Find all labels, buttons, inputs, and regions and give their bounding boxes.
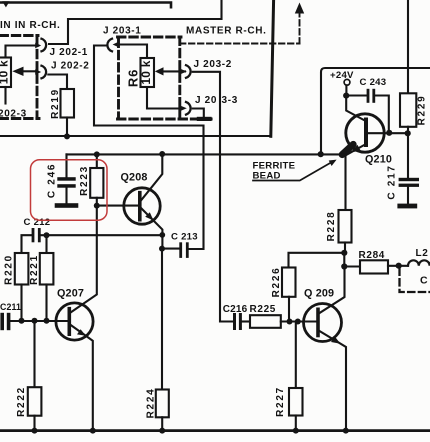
svg-text:J 202-2: J 202-2 <box>51 61 89 72</box>
wire +24V rail <box>321 68 430 152</box>
resistor R222 <box>33 321 35 388</box>
resistor R223 <box>96 154 98 168</box>
svg-text:IN IN R-CH.: IN IN R-CH. <box>0 20 60 31</box>
svg-text:C 212: C 212 <box>24 217 51 228</box>
node junction Q208 collector <box>159 151 165 157</box>
wire pot bottom lead <box>4 87 6 104</box>
wire C243 right lead down to Q210 collector node <box>375 96 389 131</box>
wire R223 node down to Q207 collector <box>71 206 97 313</box>
resistor R219 <box>61 89 75 118</box>
resistor R228 <box>344 156 346 211</box>
node junction R223 bottom <box>94 203 100 209</box>
ground bar J203-3 <box>197 117 212 121</box>
svg-text:R229: R229 <box>417 95 428 126</box>
connector J203-2 <box>186 65 191 78</box>
wire J203-2 output down to C216 <box>193 72 233 322</box>
node junction R223 top <box>94 151 100 157</box>
node junction Q207 emitter/bus <box>90 428 96 434</box>
svg-text:R228: R228 <box>326 211 337 242</box>
svg-text:C 2: C 2 <box>420 275 430 287</box>
capacitor C217 <box>407 133 409 178</box>
node junction R284/L2 <box>396 263 402 269</box>
svg-text:R227: R227 <box>275 386 286 417</box>
resistor R229 <box>407 0 409 93</box>
node junction R219/bus <box>64 133 70 139</box>
wire J202-1 output to top edge <box>49 0 222 44</box>
node junction R228 bottom <box>341 250 347 256</box>
node +24V terminal <box>344 79 350 85</box>
svg-text:C 213: C 213 <box>171 231 198 242</box>
svg-text:C211: C211 <box>0 302 21 312</box>
ferrite bead on Q210 emitter <box>342 144 353 154</box>
node junction C212/R221 <box>44 232 50 238</box>
svg-text:R223: R223 <box>79 165 90 196</box>
resistor R220 <box>15 253 29 285</box>
svg-text:L2: L2 <box>416 248 429 259</box>
connector J203-3 <box>186 102 191 115</box>
wire supply rail y154 <box>67 153 346 155</box>
wire to R284 <box>344 265 360 267</box>
svg-text:R220: R220 <box>4 254 15 285</box>
svg-text:R224: R224 <box>145 388 156 419</box>
wire J203-3 output to ground <box>193 109 204 117</box>
wire C212 node to Q208 emitter <box>47 234 162 236</box>
svg-text:C 217: C 217 <box>386 164 397 199</box>
wire top feed line <box>0 3 171 8</box>
svg-text:MASTER R-CH.: MASTER R-CH. <box>186 25 267 36</box>
ground bar C217 <box>397 204 417 209</box>
connector J202-1 <box>42 39 47 52</box>
svg-text:10 k: 10 k <box>139 60 153 84</box>
transistor Q209 <box>304 304 342 342</box>
transistor Q210 <box>346 114 384 152</box>
wire dashed box MAIN IN (J202) bottom edge <box>0 117 39 120</box>
svg-text:R226: R226 <box>271 267 282 298</box>
wire dashed box MASTER (J203) top edge <box>118 36 182 39</box>
wire R6 wiper arrow from J203-2 <box>163 70 185 72</box>
svg-text:J 202-1: J 202-1 <box>50 47 88 58</box>
svg-text:Q207: Q207 <box>57 287 84 299</box>
wire pot wiper arrow from J202-2 <box>23 70 35 72</box>
wire R6 bottom lead to J203-3 <box>147 87 180 109</box>
svg-text:R222: R222 <box>16 386 27 417</box>
ground bar C246 <box>55 203 79 208</box>
wire dashed box MAIN IN (J202) top edge <box>0 34 38 37</box>
node junction R220/base <box>19 318 25 324</box>
node junction R227 top <box>295 319 301 325</box>
resistor R224 <box>156 390 169 418</box>
svg-text:202-3: 202-3 <box>0 109 27 120</box>
connector J202-2 <box>42 66 47 79</box>
node junction Q209 collector <box>341 263 347 269</box>
wire dashed box MASTER (J203) bottom edge <box>118 118 212 121</box>
wire J203-1 left lead down to C213 <box>94 46 204 250</box>
svg-text:Q210: Q210 <box>365 154 392 166</box>
resistor R227 <box>295 322 297 389</box>
wire bottom bus <box>0 429 430 432</box>
connector J203-1 <box>107 39 112 52</box>
wire Q208 emitter node down to R224 <box>161 249 163 390</box>
svg-text:J 20: J 20 <box>195 95 217 106</box>
wire dashed output MASTER R-CH with up arrow <box>180 43 300 45</box>
wire R219 bottom lead <box>66 118 68 137</box>
wire R223 node to Q208 base <box>97 205 140 207</box>
transistor Q208 <box>124 188 160 224</box>
svg-text:J 203-2: J 203-2 <box>194 59 232 70</box>
resistor R221 <box>45 235 47 253</box>
svg-text:R221: R221 <box>29 254 40 285</box>
node junction R221/base <box>44 318 50 324</box>
wire dashed stub to C2xx <box>400 269 430 293</box>
potentiometer 10k (left, clipped) <box>0 58 11 88</box>
wire dashed box MASTER (J203) left edge <box>117 39 120 118</box>
svg-text:3-3: 3-3 <box>222 95 238 106</box>
node junction Q208 emitter <box>159 246 165 252</box>
node top-left arrow <box>2 1 9 7</box>
resistor R226 <box>289 253 343 268</box>
svg-text:+24V: +24V <box>330 70 354 81</box>
wire pot top lead to J202-1 <box>6 46 36 58</box>
svg-text:10 k: 10 k <box>0 60 10 84</box>
wire dashed box MASTER (J203) right edge <box>178 37 181 117</box>
svg-text:R219: R219 <box>50 88 61 119</box>
wire dashed box MAIN IN (J202) right edge <box>36 38 39 118</box>
node junction R226 bottom <box>287 319 293 325</box>
wire Q207 base wire <box>10 320 67 322</box>
svg-text:R225: R225 <box>250 304 277 315</box>
wire R228 node to R284 node <box>343 253 345 267</box>
svg-text:C 246: C 246 <box>46 163 57 198</box>
svg-text:Q208: Q208 <box>121 171 148 183</box>
svg-text:J 203-1: J 203-1 <box>103 25 141 36</box>
node junction R222/base <box>32 318 38 324</box>
svg-text:C 243: C 243 <box>360 77 387 88</box>
transistor Q207 <box>56 303 93 340</box>
capacitor C246 <box>65 154 67 177</box>
wire J203-1 right lead to R6 <box>118 45 147 59</box>
wire left bus to top edge <box>0 135 270 137</box>
svg-text:Q 209: Q 209 <box>304 287 334 299</box>
node red annotation box around C246/R223 <box>31 160 108 220</box>
resistor R6 <box>141 58 155 87</box>
wire J202-2 output to R219 <box>48 75 67 90</box>
